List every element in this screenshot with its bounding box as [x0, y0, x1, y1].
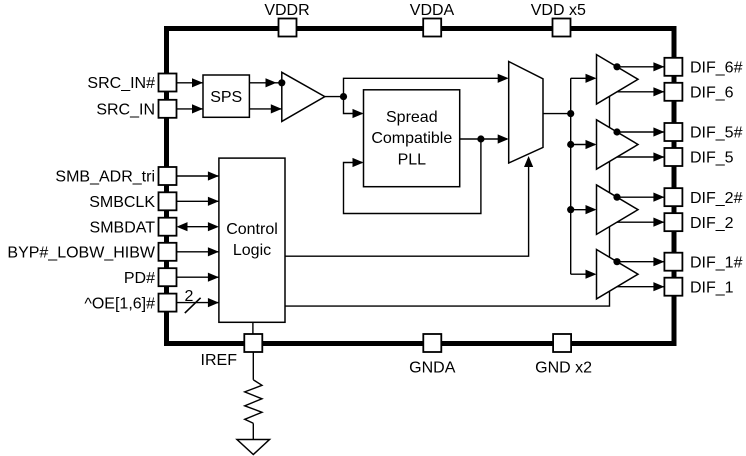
wire SRC node down to PLL ref input: [344, 97, 363, 114]
pin VDDA: [423, 19, 441, 37]
wire SPS output bottom: [249, 108, 281, 110]
wire buffer DIF1 to DIF_1# pin: [617, 261, 664, 263]
pin GND x2: [553, 334, 571, 352]
wire BYP#_LOBW_HIBW pin to control logic: [177, 251, 219, 253]
output buffer DIF6: [597, 55, 639, 104]
wire bus tap to buffer DIF5: [571, 144, 595, 146]
output buffer DIF1: [597, 250, 639, 299]
pin VDDR: [279, 19, 297, 37]
svg-text:DIF_2#: DIF_2#: [690, 190, 743, 207]
Spread Compatible PLL block: [364, 90, 460, 187]
wire SRC_IN# pin to SPS: [177, 82, 204, 84]
chip boundary: [167, 29, 675, 344]
svg-text:SRC_IN: SRC_IN: [96, 102, 155, 119]
svg-text:Control: Control: [226, 221, 278, 238]
Control Logic block: [219, 158, 285, 322]
pin SMBCLK: [159, 192, 177, 210]
node buffer DIF6 complement tap: [613, 63, 620, 70]
wire mux output to bus: [543, 113, 571, 115]
wire IREF pin to resistor: [252, 352, 254, 380]
wire resistor to ground: [252, 423, 254, 439]
pin SMB_ADR_tri: [159, 167, 177, 185]
node bus tap buffer DIF2: [567, 206, 574, 213]
wire buffer DIF2 to DIF_2 pin: [617, 221, 664, 223]
pin PD#: [159, 268, 177, 286]
svg-text:GND x2: GND x2: [535, 360, 592, 377]
wire bus tap to buffer DIF2: [571, 209, 595, 211]
pin SMBDAT: [159, 218, 177, 236]
output buffer DIF2: [597, 185, 639, 234]
svg-text:DIF_6#: DIF_6#: [690, 60, 743, 77]
svg-text:VDD x5: VDD x5: [531, 2, 586, 19]
svg-text:Logic: Logic: [233, 242, 271, 259]
wire SRC_IN pin to SPS: [177, 108, 204, 110]
wire SRC buffer output to node: [325, 96, 344, 98]
svg-text:PD#: PD#: [124, 270, 155, 287]
pin SRC_IN#: [159, 74, 177, 92]
pin VDD x5: [553, 19, 571, 37]
node PLL output junction: [477, 135, 484, 142]
pin DIF_5: [664, 148, 682, 166]
wire mux select from control logic: [285, 158, 529, 256]
node mux output junction: [567, 110, 574, 117]
svg-text:SMBDAT: SMBDAT: [90, 219, 156, 236]
svg-text:SPS: SPS: [210, 89, 242, 106]
wire buffer DIF2 to DIF_2# pin: [617, 196, 664, 198]
SRC input buffer: [282, 72, 325, 121]
wire PLL feedback loop: [344, 139, 481, 214]
ground symbol: [237, 440, 270, 455]
pin SRC_IN: [159, 100, 177, 118]
pin DIF_1#: [664, 253, 682, 271]
mux: [509, 62, 543, 164]
pin IREF: [244, 334, 262, 352]
wire buffer DIF1 to DIF_1 pin: [617, 286, 664, 288]
bus width slash: [185, 298, 201, 313]
svg-text:Compatible: Compatible: [371, 130, 452, 147]
resistor R IREF: [245, 380, 262, 424]
node buffer DIF1 complement tap: [613, 258, 620, 265]
wire output enable from control logic: [285, 96, 610, 306]
wire SMBDAT pin to control logic bidirectional: [182, 226, 213, 228]
wire SMB_ADR_tri pin to control logic: [177, 175, 219, 177]
svg-text:DIF_5: DIF_5: [690, 150, 734, 167]
wire bus tap to buffer DIF1: [571, 273, 595, 275]
svg-text:VDDA: VDDA: [410, 2, 455, 19]
wire PD# pin to control logic: [177, 276, 219, 278]
svg-text:DIF_5#: DIF_5#: [690, 125, 743, 142]
svg-text:DIF_1#: DIF_1#: [690, 254, 743, 271]
wire buffer DIF5 to DIF_5# pin: [617, 131, 664, 133]
wire output clock bus vertical: [570, 78, 572, 274]
node bus tap buffer DIF5: [567, 141, 574, 148]
svg-text:BYP#_LOBW_HIBW: BYP#_LOBW_HIBW: [7, 245, 156, 262]
node buffer DIF5 complement tap: [613, 128, 620, 135]
SPS block U1: [203, 75, 249, 117]
pin DIF_6: [664, 83, 682, 101]
svg-text:GNDA: GNDA: [409, 360, 456, 377]
svg-text:DIF_6: DIF_6: [690, 85, 734, 102]
pin GNDA: [423, 334, 441, 352]
svg-text:VDDR: VDDR: [264, 2, 309, 19]
svg-text:DIF_2: DIF_2: [690, 215, 734, 232]
svg-text:SMB_ADR_tri: SMB_ADR_tri: [55, 169, 155, 186]
svg-text:Spread: Spread: [386, 109, 438, 126]
wire buffer DIF6 to DIF_6# pin: [617, 66, 664, 68]
wire ^OE pin to control logic bus of 2: [177, 302, 219, 304]
wire buffer DIF6 to DIF_6 pin: [617, 91, 664, 93]
svg-text:SRC_IN#: SRC_IN#: [87, 75, 155, 92]
svg-text:PLL: PLL: [398, 151, 427, 168]
svg-text:SMBCLK: SMBCLK: [89, 194, 155, 211]
wire bus tap to buffer DIF6: [571, 77, 595, 79]
output buffer DIF5: [597, 120, 639, 169]
wire control logic to IREF pin: [252, 322, 254, 335]
svg-text:2: 2: [185, 288, 194, 305]
pin BYP#_LOBW_HIBW: [159, 243, 177, 261]
wire SPS output top: [249, 82, 281, 84]
node buffer DIF2 complement tap: [613, 194, 620, 201]
svg-text:IREF: IREF: [201, 352, 238, 369]
pin ^OE[1,6]#: [159, 294, 177, 312]
svg-text:DIF_1: DIF_1: [690, 279, 734, 296]
wire SRC node up to mux input 1: [344, 78, 508, 96]
wire SMBCLK pin to control logic: [177, 200, 219, 202]
wire PLL node to mux input 2: [481, 138, 507, 140]
wire PLL output to node: [460, 138, 481, 140]
pin DIF_2#: [664, 188, 682, 206]
pin DIF_6#: [664, 58, 682, 76]
pin DIF_5#: [664, 123, 682, 141]
svg-text:^OE[1,6]#: ^OE[1,6]#: [84, 295, 155, 312]
node SRC buffer input junction: [278, 79, 285, 86]
node SRC clock: [340, 93, 347, 100]
wire buffer DIF5 to DIF_5 pin: [617, 156, 664, 158]
pin DIF_1: [664, 278, 682, 296]
pin DIF_2: [664, 213, 682, 231]
